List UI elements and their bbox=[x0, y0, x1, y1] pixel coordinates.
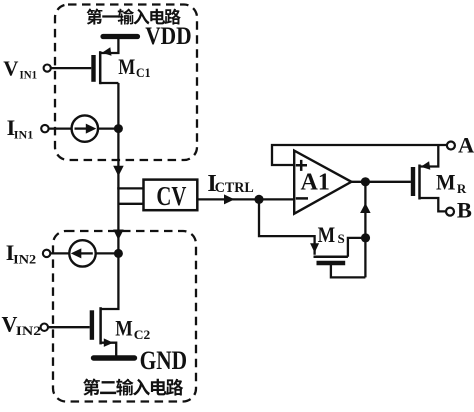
wire: CV output to op-amp inverting input bbox=[197, 198, 294, 200]
wire: VDD to M_C1 source bbox=[100, 37, 118, 54]
svg-text:R: R bbox=[457, 181, 467, 196]
svg-text:CTRL: CTRL bbox=[215, 180, 254, 196]
svg-text:GND: GND bbox=[140, 346, 188, 375]
wire: rail down to M_C2 drain bbox=[101, 253, 119, 309]
svg-text:V: V bbox=[3, 56, 18, 80]
wire: I_IN2 to rail bbox=[50, 252, 118, 254]
current source I_IN2 bbox=[69, 240, 95, 266]
label: 第一输入电路 (first input circuit) bbox=[87, 9, 181, 25]
junction: I_IN1 / M_C1 drain bbox=[114, 124, 123, 133]
terminal V_IN2 bbox=[41, 324, 48, 331]
terminal I_IN2 bbox=[43, 250, 50, 257]
svg-text:M: M bbox=[115, 316, 133, 341]
svg-text:B: B bbox=[457, 198, 472, 223]
arrow: M_S current up bbox=[360, 203, 371, 213]
transistor M_C1 source arrow (PMOS) bbox=[102, 47, 112, 56]
wire: V_IN2 to M_C2 gate bbox=[48, 326, 90, 328]
wire: M_C2 source to GND bbox=[101, 343, 117, 356]
wire: M_R source to node A bbox=[420, 145, 439, 167]
wire: V_IN1 to M_C1 gate bbox=[51, 67, 92, 69]
current source I_IN1 bbox=[72, 115, 98, 141]
transistor M_C1 channel bbox=[99, 51, 102, 84]
arrow: current into CV bbox=[113, 166, 124, 177]
dashed box: second input circuit bbox=[53, 231, 196, 402]
wire: M_S drain to node bbox=[348, 238, 366, 257]
op-amp minus sign bbox=[296, 197, 308, 200]
wire: rail down to second input circuit bbox=[117, 187, 119, 253]
transistor M_S source arrow bbox=[310, 243, 319, 253]
terminal B bbox=[446, 208, 454, 216]
junction: I_CTRL node bbox=[254, 195, 263, 204]
VDD power bar bbox=[103, 34, 138, 39]
terminal I_IN1 bbox=[41, 125, 48, 132]
wire: feedback from node A to non-inverting input bbox=[272, 145, 447, 165]
svg-text:CV: CV bbox=[156, 181, 186, 211]
CV converter block bbox=[144, 180, 198, 211]
wire: CV lower stub bbox=[118, 203, 143, 205]
wire: M_R drain to terminal B bbox=[420, 198, 446, 211]
arrow: current into second input circuit bbox=[113, 230, 124, 241]
op-amp plus sign bbox=[296, 160, 307, 171]
svg-text:S: S bbox=[338, 231, 345, 246]
wire: rail stub into CV upper bbox=[118, 187, 143, 189]
wire: M_C1 drain rail down to CV bbox=[117, 83, 119, 190]
arrow: I_CTRL direction bbox=[224, 194, 235, 204]
svg-text:VDD: VDD bbox=[145, 23, 192, 50]
GND bar bbox=[94, 355, 135, 360]
svg-text:A1: A1 bbox=[301, 170, 330, 196]
transistor M_R gate bar bbox=[411, 167, 415, 196]
svg-text:IN2: IN2 bbox=[16, 324, 41, 338]
wire: M_C1 drain lead bbox=[100, 82, 118, 84]
wire: op-amp output to M_R gate bbox=[351, 181, 411, 183]
svg-text:C2: C2 bbox=[134, 328, 151, 342]
transistor M_C2 channel bbox=[99, 307, 102, 344]
transistor M_C1 gate bar bbox=[91, 55, 95, 82]
junction: op-amp output node bbox=[361, 177, 370, 186]
dashed box: first input circuit bbox=[55, 5, 197, 161]
svg-text:C1: C1 bbox=[136, 66, 151, 80]
op-amp A1 bbox=[294, 151, 351, 214]
transistor M_C2 source arrow (NMOS) bbox=[104, 338, 114, 347]
svg-text:M: M bbox=[318, 222, 336, 247]
svg-text:A: A bbox=[458, 132, 474, 157]
terminal V_IN1 bbox=[44, 65, 51, 72]
svg-text:IN1: IN1 bbox=[20, 67, 38, 81]
svg-text:IN2: IN2 bbox=[13, 253, 36, 267]
transistor M_S gate bar bbox=[317, 261, 346, 265]
label: 第二输入电路 (second input circuit) bbox=[83, 379, 183, 396]
wire: M_S gate to node (diode connection) bbox=[331, 264, 366, 277]
svg-text:M: M bbox=[118, 54, 135, 79]
wire: output node down to M_S gate link bbox=[364, 182, 366, 278]
transistor M_C2 gate bar bbox=[90, 310, 94, 340]
terminal A bbox=[447, 142, 455, 150]
transistor M_R source arrow (PMOS) bbox=[421, 161, 431, 170]
transistor M_S channel bbox=[314, 255, 348, 258]
junction: M_S drain node bbox=[361, 233, 370, 242]
svg-text:M: M bbox=[436, 170, 456, 195]
wire: I_CTRL node to M_S source bbox=[259, 199, 315, 254]
wire: I_IN1 to rail bbox=[49, 127, 119, 129]
junction: I_IN2 / M_C2 drain bbox=[114, 249, 123, 258]
svg-text:IN1: IN1 bbox=[14, 127, 34, 141]
transistor M_R channel bbox=[418, 165, 421, 200]
